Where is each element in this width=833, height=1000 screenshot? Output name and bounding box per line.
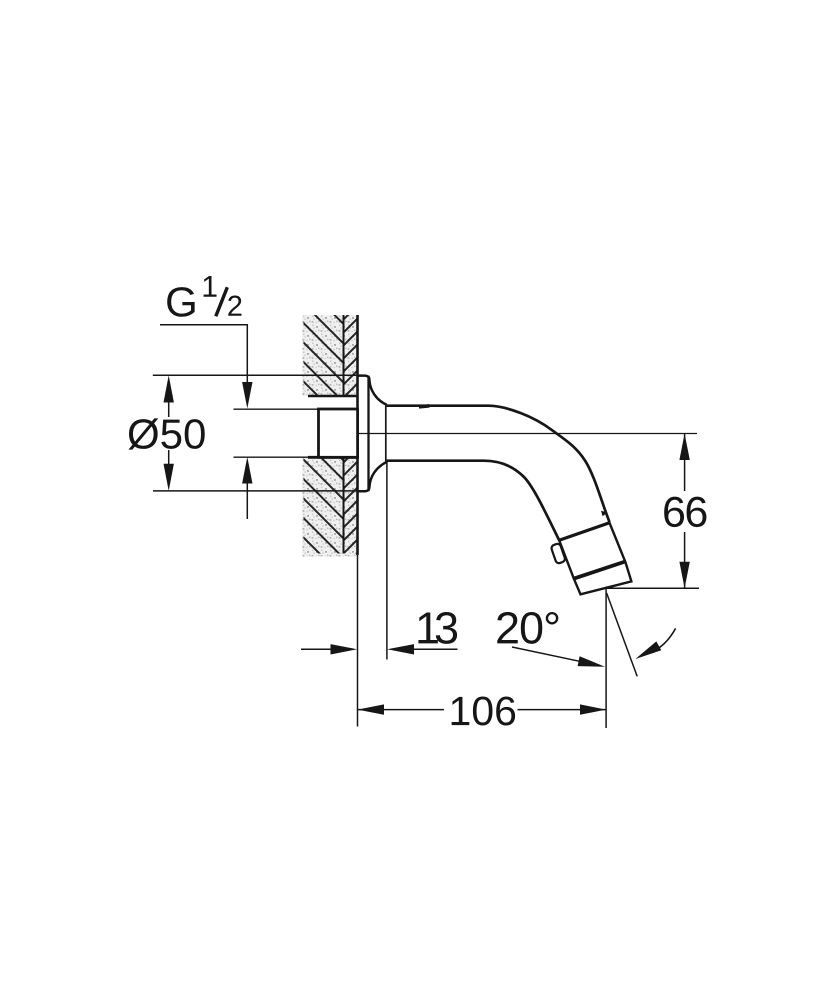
mark on spout top edge bbox=[419, 404, 430, 409]
66 bottom extension line bbox=[606, 587, 699, 589]
label 2 (denominator) bbox=[228, 296, 241, 316]
13 dim right arrow bbox=[404, 648, 458, 650]
66 down arrow bbox=[679, 562, 689, 589]
wall hatch lower right band bbox=[344, 458, 358, 554]
wall face extension line down bbox=[357, 555, 359, 727]
66 up arrow bbox=[679, 434, 689, 461]
spout bottom edge bbox=[387, 461, 560, 541]
label 66 bbox=[664, 497, 706, 527]
escutcheon neck line bbox=[385, 405, 387, 461]
66 dim line lower bbox=[684, 532, 686, 588]
small arrowhead on spout edge bbox=[601, 511, 607, 517]
label 1 (numerator) bbox=[204, 276, 217, 297]
20 deg leader bbox=[512, 647, 582, 662]
Ø50 lower arrow bbox=[164, 464, 174, 491]
13 dim left arrow bbox=[301, 648, 340, 650]
spout top edge bbox=[387, 406, 610, 522]
20 deg slant line bbox=[607, 593, 638, 676]
Ø50 bottom extension line bbox=[153, 490, 357, 492]
G1/2 threaded nipple bbox=[319, 409, 358, 457]
aerator dark band bbox=[574, 562, 626, 579]
G1/2 nipple extension stub bottom bbox=[234, 456, 319, 458]
G1/2 leader line bbox=[160, 325, 247, 384]
centerline (66 top reference) bbox=[353, 433, 698, 435]
escutcheon plate right edge bbox=[367, 376, 369, 492]
Ø50 top extension line bbox=[153, 374, 357, 376]
aerator body bbox=[559, 523, 631, 595]
label diameter 50 bbox=[128, 418, 204, 449]
wall hatch upper right band bbox=[344, 315, 358, 396]
fraction slash of G 1/2 bbox=[216, 287, 228, 316]
wall mid line upper bbox=[343, 315, 345, 396]
label 106 bbox=[452, 696, 515, 725]
G1/2 down arrow bbox=[242, 382, 252, 409]
escutcheon top flare bbox=[357, 376, 387, 405]
20 deg arc arrow bbox=[657, 628, 676, 649]
wall stipple lower bbox=[302, 458, 358, 557]
wall face line bbox=[356, 315, 359, 555]
wall hole top edge bbox=[308, 395, 358, 398]
label G bbox=[167, 287, 194, 317]
106 dim line bbox=[358, 709, 445, 711]
G1/2 up arrow bbox=[242, 457, 252, 484]
wall hatch upper left band bbox=[304, 315, 344, 396]
aerator joint line bbox=[559, 523, 609, 541]
escutcheon bottom flare bbox=[357, 462, 387, 491]
wall hole bottom edge bbox=[308, 456, 358, 459]
106 left arrow bbox=[358, 704, 385, 714]
label 13 bbox=[418, 612, 457, 644]
Ø50 upper arrow bbox=[164, 375, 174, 402]
wall mid line lower bbox=[343, 458, 345, 554]
20 deg vertical extension line bbox=[605, 587, 607, 729]
13 dim second extension line bbox=[386, 462, 388, 660]
aerator side tab bbox=[551, 543, 566, 564]
G1/2 nipple extension stub top bbox=[234, 408, 319, 410]
wall hatch lower left band bbox=[304, 458, 344, 554]
label 20 degrees bbox=[497, 612, 558, 644]
106 right arrow bbox=[580, 704, 606, 714]
wall stipple upper bbox=[302, 315, 358, 396]
66 dim line upper bbox=[684, 434, 686, 492]
